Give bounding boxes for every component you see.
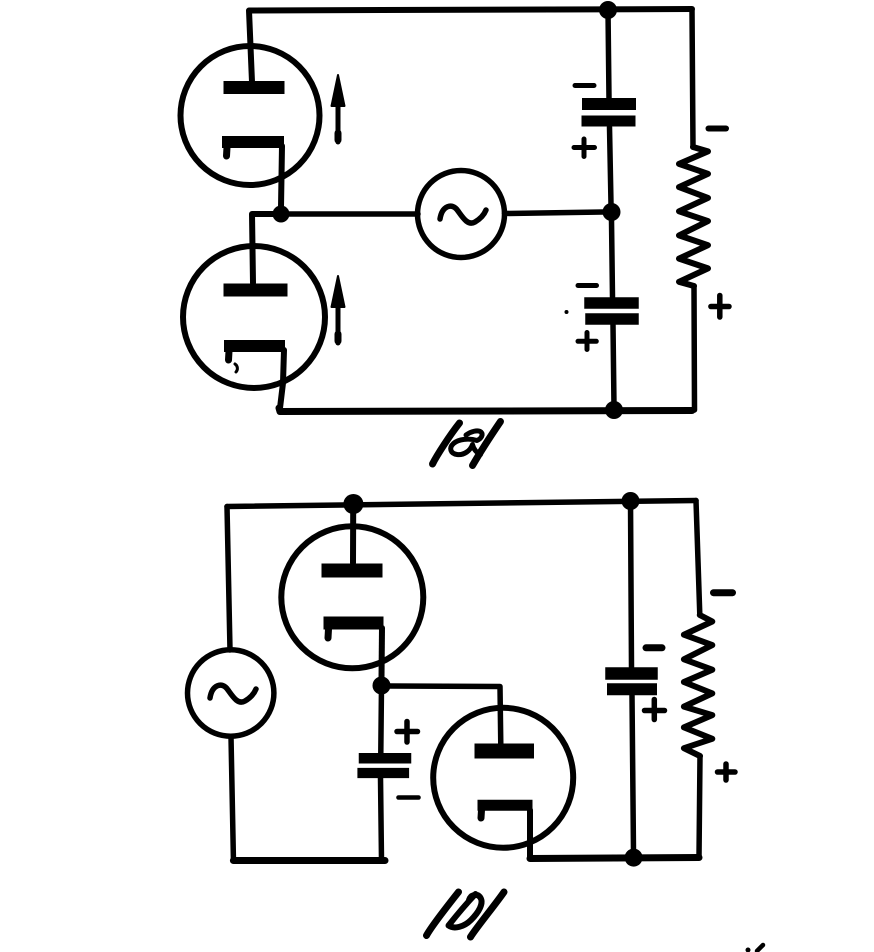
- ac source G of (b): [188, 650, 274, 736]
- node: top-left junction of (b): [343, 494, 363, 514]
- capacitor C4 top plate: [612, 667, 652, 680]
- stray ink dot left of C2: [565, 310, 569, 314]
- wire: resistor (b) bottom lead: [699, 756, 700, 858]
- wire: junction across to tube V4 plate: [390, 686, 501, 746]
- wire: capacitor branch between C1 and mid junction: [610, 127, 612, 204]
- tube V2 plate: [230, 284, 281, 297]
- wire: right capacitor branch upper segment: [631, 501, 632, 667]
- stray marks bottom right: [746, 948, 751, 952]
- wire: right capacitor branch lower segment: [632, 696, 634, 853]
- wire: right branch top, to resistor R: [692, 10, 693, 147]
- wire: capacitor C3 bottom lead: [381, 778, 382, 860]
- wire: bottom bus of (a): [279, 408, 692, 412]
- ac source (a) sine symbol: [440, 206, 486, 223]
- wire: left branch down to AC source (b): [227, 507, 230, 651]
- capacitor C3 bottom plate: [363, 768, 405, 778]
- label: minus of C1: [575, 83, 594, 88]
- wire: capacitor branch between mid junction and C2: [612, 220, 613, 297]
- wire: resistor bottom lead of (a): [691, 286, 697, 410]
- tube V3 plate: [329, 564, 376, 578]
- wire: V3 plate lead from top junction: [350, 510, 356, 563]
- label (b) open paren: [427, 892, 459, 936]
- label: plus of C1: [574, 139, 595, 157]
- node: bottom junction of (a): [605, 401, 623, 419]
- label: minus of C2: [578, 283, 597, 288]
- current arrow beside V2: [336, 305, 341, 343]
- capacitor C1 top plate: [588, 98, 630, 110]
- tube V1 plate: [230, 81, 278, 94]
- capacitor C2 top plate: [590, 297, 633, 309]
- label (b) close paren: [471, 892, 505, 937]
- node: top junction of (a): [599, 1, 617, 19]
- label (a) close paren: [473, 422, 501, 466]
- node: junction below tube V3: [373, 677, 391, 695]
- wire: junction to AC source (a): [289, 211, 418, 217]
- capacitor C1 bottom plate: [587, 116, 630, 127]
- label (a) open paren: [433, 423, 460, 464]
- wire: capacitor branch upper segment: [608, 10, 609, 99]
- wire: junction to capacitor C3: [378, 686, 384, 754]
- node: top-right junction of (b): [622, 492, 640, 510]
- label: plus of R (a): [711, 296, 729, 318]
- capacitor C3 top plate: [364, 753, 406, 764]
- tube V3 cathode: [330, 617, 377, 630]
- label: minus of C3: [399, 795, 419, 800]
- label (a) letter a: [451, 431, 482, 455]
- tube V1 cathode: [228, 136, 278, 148]
- wire: V2 cathode lead down to bottom bus: [280, 350, 284, 408]
- wire: V3 cathode lead down to junction: [379, 628, 386, 678]
- tube V1 envelope: [181, 46, 320, 185]
- capacitor C2 bottom plate: [591, 313, 633, 325]
- current arrow beside V1: [336, 104, 341, 142]
- label: minus of R (a): [709, 126, 727, 132]
- tube V3 envelope: [281, 526, 423, 668]
- wire: bottom-right bus of (b): [530, 858, 699, 859]
- wire: bottom-left bus of (b): [233, 857, 385, 864]
- label: plus of C2: [578, 333, 596, 350]
- label: minus of R (b): [714, 589, 733, 596]
- tube V4 cathode: [483, 800, 527, 811]
- node: junction between V1 and V2: [273, 206, 290, 223]
- tube V4 plate: [482, 744, 527, 759]
- ac source (b) sine symbol: [210, 685, 256, 702]
- ac source G of (a): [418, 171, 505, 258]
- tube V2 envelope: [183, 246, 325, 388]
- node: bottom junction of (b): [625, 849, 643, 867]
- label: minus of C4: [646, 644, 662, 651]
- capacitor C4 bottom plate: [613, 683, 651, 695]
- resistor R load of (b): [684, 615, 712, 756]
- resistor R load of (a): [679, 147, 708, 286]
- wire: V1 cathode lead to junction: [281, 146, 282, 207]
- wire: V4 cathode lead down to bottom bus: [527, 810, 533, 859]
- tube V4 envelope: [433, 708, 573, 848]
- wire: AC (b) bottom lead: [231, 737, 233, 859]
- label: plus of R (b): [718, 764, 736, 780]
- label: plus of C3: [397, 722, 418, 743]
- wire: right branch top lead to resistor (b): [696, 501, 700, 616]
- label: plus of C4: [645, 700, 665, 720]
- wire: top bus of (a) with corner to tube V1 plate: [249, 9, 692, 82]
- tube V2 cathode: [230, 340, 279, 352]
- node: mid junction of (a): [603, 203, 621, 221]
- wire: AC source (a) to mid junction: [505, 212, 604, 214]
- label (b) letter b: [449, 894, 482, 927]
- wire: top bus of (b): [227, 501, 696, 507]
- wire: junction stub down to tube V2 plate: [252, 214, 275, 283]
- wire: capacitor branch lower segment: [613, 325, 614, 406]
- stray tick inside V2: [235, 364, 237, 372]
